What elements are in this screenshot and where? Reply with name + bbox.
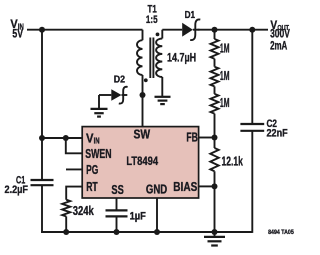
svg-text:PG: PG xyxy=(86,163,98,177)
transformer T1 primary winding xyxy=(137,30,143,75)
transformer phase dot primary xyxy=(144,78,148,82)
diode D1 xyxy=(182,19,200,40)
wire PG stub xyxy=(66,168,83,170)
svg-text:BIAS: BIAS xyxy=(173,180,197,194)
wire SWEN branch xyxy=(66,138,83,153)
svg-text:2mA: 2mA xyxy=(270,40,287,52)
svg-text:GND: GND xyxy=(146,182,167,196)
node BIAS junction xyxy=(212,183,218,189)
node VIN junction xyxy=(39,27,45,33)
svg-text:12.1k: 12.1k xyxy=(222,155,243,169)
svg-text:LT8494: LT8494 xyxy=(126,154,158,168)
resistor R3 1M xyxy=(211,94,219,114)
svg-text:SS: SS xyxy=(111,183,123,197)
svg-text:1M: 1M xyxy=(220,96,230,110)
wire R3 to FB node xyxy=(214,114,216,148)
wire bottom ground rail xyxy=(41,231,252,233)
svg-text:324k: 324k xyxy=(73,204,94,218)
diode D2 (zener) xyxy=(99,87,128,104)
node SW/D2 junction xyxy=(140,92,146,98)
capacitor C3 1uF xyxy=(106,210,128,216)
svg-text:300V: 300V xyxy=(270,29,290,41)
label pin VIN xyxy=(86,132,100,146)
transformer T1 core xyxy=(150,38,153,79)
node SS cap rail junction xyxy=(114,229,120,235)
wire 12.1k to BIAS node xyxy=(214,171,216,186)
resistor 324k xyxy=(62,200,70,217)
wire right rail upper (VOUT node to C2) xyxy=(251,30,253,124)
transformer T1 secondary winding xyxy=(156,30,162,97)
wire 324k to bottom rail xyxy=(65,216,67,232)
ground for T1 secondary xyxy=(155,97,171,104)
label VIN 5V xyxy=(10,17,23,40)
svg-text:SWEN: SWEN xyxy=(85,147,111,161)
label C2 22nF xyxy=(267,118,288,140)
svg-text:1M: 1M xyxy=(220,41,230,55)
node GND rail junction xyxy=(154,229,160,235)
wire between R2 R3 xyxy=(214,86,216,94)
svg-text:1µF: 1µF xyxy=(130,210,147,222)
svg-text:22nF: 22nF xyxy=(267,128,288,140)
svg-text:8494 TA05: 8494 TA05 xyxy=(268,229,294,236)
wire left rail lower (C1 to bottom rail) xyxy=(41,185,43,233)
svg-text:FB: FB xyxy=(186,131,198,145)
resistor R2 1M xyxy=(211,67,219,87)
svg-text:1:5: 1:5 xyxy=(146,14,158,26)
node VOUT junction xyxy=(249,27,255,33)
op-amp U1 LT8494 body xyxy=(82,127,198,198)
svg-text:D2: D2 xyxy=(114,73,125,85)
svg-text:14.7µH: 14.7µH xyxy=(167,52,196,64)
node divider top junction xyxy=(212,27,218,33)
wire left rail upper (VIN junction down to C1) xyxy=(41,30,43,180)
label C1 2.2uF xyxy=(5,174,29,196)
wire BIAS node to bottom rail xyxy=(214,186,216,232)
wire cap to bottom rail xyxy=(116,216,118,232)
svg-text:IN: IN xyxy=(94,136,100,146)
ground main symbol xyxy=(204,232,225,246)
wire VIN pin branch xyxy=(42,137,83,139)
resistor R4 12.1k xyxy=(210,148,218,171)
node VIN rail junction xyxy=(39,135,45,141)
svg-text:5V: 5V xyxy=(12,26,23,40)
svg-text:D1: D1 xyxy=(185,9,196,21)
wire SW pin up to D2 node xyxy=(142,75,144,127)
node 324k bottom rail junction xyxy=(63,229,69,235)
label T1 1:5 xyxy=(146,4,158,27)
svg-text:2.2µF: 2.2µF xyxy=(5,184,29,196)
wire between R1 R2 xyxy=(214,59,216,67)
wire SS pin to cap xyxy=(116,198,118,210)
svg-text:1M: 1M xyxy=(220,69,230,83)
wire secondary top to D1 xyxy=(162,29,182,31)
label VOUT 300V 2mA xyxy=(270,18,290,52)
wire GND pin to bottom rail xyxy=(156,198,158,232)
wire right rail lower (C2 to bottom rail) xyxy=(251,131,253,233)
node FB junction xyxy=(212,135,218,141)
resistor R1 1M xyxy=(211,39,219,59)
wire D1 to VOUT xyxy=(198,29,269,31)
wire BIAS pin xyxy=(199,185,215,187)
ground for D2 xyxy=(91,95,108,117)
wire RT pin to resistor xyxy=(66,187,82,200)
wire divider chain top xyxy=(214,30,216,39)
node bottom rail ground junction xyxy=(212,229,218,235)
wire top rail from VIN to transformer primary xyxy=(27,29,143,31)
node VIN/SWEN branch junction xyxy=(63,135,69,141)
wire FB pin xyxy=(199,137,215,139)
transformer phase dot secondary xyxy=(156,33,160,37)
capacitor C2 xyxy=(240,124,264,131)
svg-text:SW: SW xyxy=(134,128,151,142)
capacitor C1 xyxy=(31,180,54,185)
svg-text:RT: RT xyxy=(86,180,98,194)
